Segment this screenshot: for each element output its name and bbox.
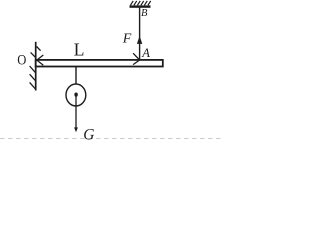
wall hatching <box>30 47 41 89</box>
wire beam to ball <box>75 67 77 84</box>
dimension arrowhead left at O <box>37 55 44 65</box>
wall line at O <box>35 42 37 91</box>
svg-text:L: L <box>74 39 85 59</box>
svg-text:F: F <box>122 32 132 47</box>
ceiling hatching <box>130 1 150 5</box>
ceiling bar at B <box>130 5 151 7</box>
wire string B to A <box>139 8 141 60</box>
force arrow F (solid head) <box>137 36 142 44</box>
svg-text:G: G <box>83 126 94 143</box>
dimension arrowhead right at A <box>133 53 140 64</box>
svg-text:A: A <box>141 46 150 60</box>
beam OA rectangle <box>36 60 163 67</box>
svg-text:B: B <box>141 8 148 19</box>
ball center dot <box>74 93 77 97</box>
ball circle <box>66 84 86 106</box>
dashed separator line <box>0 138 223 140</box>
svg-text:O: O <box>17 52 26 68</box>
weight arrow G <box>75 96 77 129</box>
